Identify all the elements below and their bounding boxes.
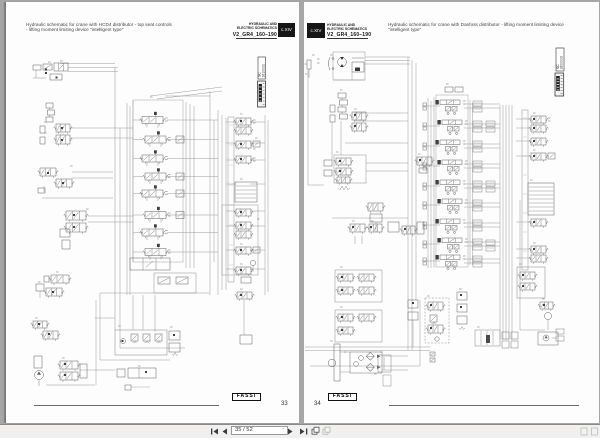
drain marks <box>430 352 435 362</box>
Danfoss distributor module 3 <box>435 140 465 154</box>
wire stack outer right bus <box>214 110 226 295</box>
pressure valve group mid <box>64 211 89 234</box>
shuttle element <box>60 229 70 249</box>
left page number 33 <box>281 401 288 407</box>
valve cluster B bottom-left <box>31 321 61 341</box>
left chain of manifold <box>408 300 418 347</box>
control block top-left <box>305 52 366 80</box>
Danfoss distributor module 7 <box>435 219 465 233</box>
distributor section jib <box>143 131 171 147</box>
cylinder bottom <box>117 368 156 378</box>
port label pair <box>473 220 482 231</box>
left page footer line <box>34 405 219 406</box>
pilot operator chain <box>46 103 55 122</box>
filter valve group <box>58 361 87 382</box>
tiny value labels left page <box>35 61 260 366</box>
left page black box c.XIV <box>278 23 295 37</box>
right cluster 3 <box>234 156 256 165</box>
label pair bottom right <box>556 329 564 341</box>
wire stack left bundle <box>127 100 133 295</box>
left page title block texts <box>178 22 277 31</box>
wire right column stubs right page <box>516 119 531 258</box>
right cluster 5 <box>234 222 254 240</box>
pilot cap box <box>176 212 184 219</box>
right page underline of code <box>327 37 368 40</box>
pilot valve pair <box>350 112 369 133</box>
page layout icon 1 <box>312 427 319 434</box>
wire right column stubs <box>226 122 265 269</box>
right cluster 2 <box>234 141 260 150</box>
r-cluster 1 <box>529 116 551 134</box>
labeled block AWZ <box>235 182 257 202</box>
right page stamp SC 1600003 <box>556 48 564 71</box>
wire stack inner right pair <box>470 100 473 265</box>
right cluster 1 <box>234 118 256 136</box>
right lower gauge <box>250 260 255 272</box>
filter box bottom left <box>378 355 391 386</box>
wire mid connections left page <box>88 216 133 222</box>
port label pair <box>473 256 482 267</box>
r-cluster 5 <box>529 246 549 264</box>
cluster C block <box>335 310 382 342</box>
port label pair <box>473 101 482 112</box>
port label pair <box>473 239 482 250</box>
right page FASSI logo <box>328 393 357 401</box>
bypass valve <box>415 157 435 173</box>
right page title block black box c.XIV <box>307 23 325 38</box>
left page <box>5 2 299 423</box>
wire stack left bundle right page <box>428 97 434 268</box>
right cluster 6 <box>234 247 260 256</box>
check valve block top-left <box>33 63 115 80</box>
pilot cap box <box>176 136 184 143</box>
prev page button <box>223 429 228 435</box>
right column enclosure box <box>222 205 258 275</box>
last page button <box>300 429 307 435</box>
pilot cap box <box>176 190 184 197</box>
solenoid box bottom <box>475 330 500 346</box>
wire main feed bus left page <box>68 68 118 331</box>
port label pair <box>473 161 482 172</box>
bottom toolbar <box>0 424 600 438</box>
Danfoss distributor module 4 <box>437 160 467 174</box>
wire distributor work-port lines <box>133 120 218 252</box>
stack left plugs <box>423 103 427 265</box>
right page FASSI oil stamp <box>555 73 564 96</box>
svg-text:1610002: 1610002 <box>261 64 265 77</box>
left page underline of code <box>236 37 277 40</box>
hand pump valve group <box>38 168 75 193</box>
Danfoss distributor module 6 <box>437 199 467 213</box>
sequence valve vertical <box>169 331 180 356</box>
wire pilot lines right page <box>332 113 408 218</box>
solenoid valve SV1 <box>54 124 73 134</box>
right page header text <box>388 22 564 32</box>
Danfoss distributor module 8 <box>437 238 467 252</box>
restrictors left <box>330 105 335 122</box>
right page <box>304 2 599 423</box>
tiny value labels right page <box>312 55 545 352</box>
rotated label strip <box>228 117 234 282</box>
Danfoss distributor enclosure <box>436 95 468 267</box>
distributor section boom <box>140 112 168 128</box>
vertical chain right of manifold <box>457 292 467 330</box>
r-cluster 3 <box>529 153 555 162</box>
distributor section rotation <box>143 168 171 184</box>
distributor section extension <box>140 150 168 166</box>
motor pump bottom right <box>538 332 558 345</box>
wire bottom long lines right page <box>305 300 430 366</box>
right cluster 4 <box>234 209 254 218</box>
wire stack top diagonal <box>150 87 222 295</box>
pilot cap box <box>176 173 184 180</box>
wire tank line left page <box>46 370 115 385</box>
right cluster 7 <box>234 267 254 283</box>
svg-text:1600003: 1600003 <box>560 56 564 69</box>
port label pair <box>473 141 482 152</box>
tank and pump unit <box>34 356 44 386</box>
wire return line left page <box>95 293 210 385</box>
wire pilot drop lines <box>332 121 408 160</box>
stack top fitting <box>445 87 463 92</box>
left page FASSI oil stamp <box>258 81 266 107</box>
next page button <box>288 429 293 435</box>
distributor section aux1 <box>143 207 171 223</box>
small end parts <box>125 385 150 390</box>
port label pair <box>473 200 482 211</box>
distributor end section <box>130 258 170 270</box>
port label pair <box>473 121 482 132</box>
right page number 34 <box>314 401 321 407</box>
valve cluster 274 <box>44 275 71 285</box>
wire top feed lines right page <box>333 57 410 80</box>
Danfoss distributor module 1 <box>435 100 465 115</box>
wire pilot bus left page <box>70 128 133 348</box>
solenoid valve SV2 <box>54 135 73 146</box>
accumulator gauge cluster <box>520 200 555 330</box>
distributor enclosure <box>133 100 183 262</box>
left page FASSI logo <box>232 393 261 401</box>
right end icons (disabled) <box>581 428 598 435</box>
Danfoss distributor module 9 <box>435 255 465 270</box>
restrictor pair <box>40 126 45 144</box>
wire left edge vertical <box>308 70 324 185</box>
terminal grid <box>502 332 518 348</box>
hatched block <box>528 183 554 215</box>
valve cluster A bottom-left <box>36 284 64 298</box>
cluster B block <box>335 270 382 302</box>
wire LS line left page <box>42 172 113 198</box>
r-cluster 2 <box>529 138 549 147</box>
distributor section winch <box>140 185 168 201</box>
end section sub-block <box>154 273 196 293</box>
distributor section aux2 <box>140 224 168 240</box>
valve row A <box>348 222 424 244</box>
relief manifold <box>115 330 167 355</box>
port label column 2 <box>486 121 495 251</box>
lower chain valve <box>366 203 386 232</box>
r-cluster 4 <box>529 219 549 228</box>
distributor section aux3 <box>143 244 171 260</box>
right lower block <box>517 267 545 298</box>
cluster D pump block <box>328 341 408 381</box>
page layout icon 2 (disabled) <box>323 427 330 434</box>
right page title block texts <box>327 23 367 32</box>
wire bottom center lines <box>100 295 185 360</box>
mid control cluster <box>324 155 366 190</box>
left page stamp SC 1610002 <box>258 57 266 79</box>
rotated label strip right page <box>522 110 528 270</box>
valve solenoid flecks right page <box>339 114 545 331</box>
right page footer line <box>389 405 579 406</box>
Danfoss distributor module 5 <box>435 180 465 194</box>
first page button <box>211 429 218 435</box>
pilot chain right page <box>338 93 348 119</box>
wire main verticals right page <box>408 57 416 350</box>
valve solenoid flecks left page <box>38 69 242 377</box>
wire right bus bundle <box>500 105 512 340</box>
dashed manifold center <box>425 298 449 343</box>
wire right column outer verticals <box>265 115 268 295</box>
Danfoss distributor module 2 <box>437 120 467 134</box>
wire stack port lines <box>422 104 500 263</box>
right lower valve <box>235 292 255 344</box>
left page header text <box>26 22 172 32</box>
wire stack right bundle <box>186 102 194 268</box>
port label pair <box>473 181 482 192</box>
